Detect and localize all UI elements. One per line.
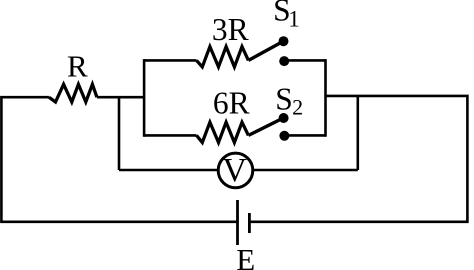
- wire voltmeter tap right: [356, 96, 359, 170]
- wire outer loop right and bottom-right: [249, 96, 467, 222]
- wire parallel left bar: [143, 59, 146, 137]
- wire outer loop left and bottom-left: [1, 97, 237, 222]
- battery E short plate: [248, 213, 251, 233]
- svg-text:R: R: [67, 48, 88, 83]
- switch S2 lever: [248, 119, 282, 136]
- wire voltmeter horizontal: [119, 169, 358, 172]
- wire top branch to right bar: [284, 59, 325, 62]
- voltmeter circle: [218, 153, 253, 188]
- switch S1 lower contact dot: [279, 56, 289, 66]
- wire bottom branch lead: [144, 134, 196, 137]
- resistor 3R: [197, 47, 249, 67]
- svg-text:V: V: [222, 152, 247, 189]
- svg-text:1: 1: [288, 6, 300, 31]
- switch S1 lever: [248, 42, 282, 61]
- battery E long plate: [236, 200, 239, 245]
- switch S2 upper contact dot: [279, 113, 289, 123]
- svg-text:2: 2: [292, 94, 303, 119]
- resistor 6R: [197, 122, 249, 142]
- switch S2 lower contact dot: [279, 131, 289, 141]
- wire bottom branch to right bar: [284, 134, 325, 137]
- wire parallel right bar: [324, 59, 327, 137]
- wire top branch lead: [144, 59, 196, 62]
- switch S1 upper contact dot: [279, 36, 289, 46]
- resistor R: [49, 84, 97, 102]
- svg-text:S: S: [275, 82, 293, 117]
- wire main between R and parallel block: [97, 96, 144, 99]
- svg-text:6R: 6R: [213, 86, 250, 121]
- svg-text:E: E: [236, 242, 255, 270]
- wire voltmeter tap left: [118, 97, 121, 170]
- svg-text:3R: 3R: [212, 12, 249, 47]
